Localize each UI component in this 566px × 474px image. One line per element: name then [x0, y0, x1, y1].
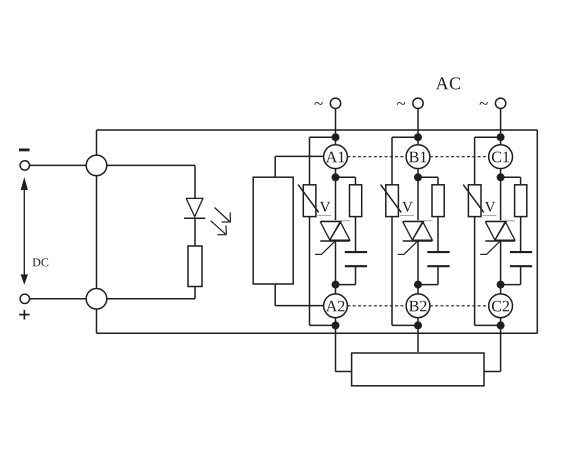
AC terminal circle (phase A) [330, 98, 340, 108]
resistor R (phase B) [432, 185, 444, 217]
LED D1 (input LED) [184, 198, 205, 218]
wire triac to A2 [335, 241, 337, 294]
wire phase C to bottom block [484, 371, 501, 373]
terminal A2 [324, 294, 348, 318]
wire block to A1 [275, 156, 323, 177]
dashed link A1-B1 [347, 156, 406, 158]
wire triac to B2 [417, 241, 419, 294]
junction dot (below A2) [332, 321, 340, 329]
terminal B2 [406, 294, 430, 318]
label V (phase C) [485, 202, 495, 212]
triac Q (phase C) [485, 221, 515, 241]
wire varistor branch bottom (phase A) [310, 217, 336, 326]
wire phase A to bottom block [336, 371, 352, 373]
DC input node circle (bottom-left) [86, 289, 107, 310]
capacitor C (phase B) [427, 252, 449, 266]
label DC [33, 258, 49, 266]
wire RC branch top (phase C) [501, 177, 521, 185]
dashed link B1-C1 [430, 156, 489, 158]
junction dot (below B1) [414, 173, 422, 181]
LED light emission arrows [211, 208, 231, 235]
dashed link A2-B2 [347, 305, 406, 307]
wire C2 down through box (phase C) [500, 318, 502, 372]
terminal C1 [489, 145, 513, 169]
DC input node circle (top-left) [86, 155, 107, 176]
wire varistor branch top (phase C) [475, 137, 501, 185]
wire capacitor to junction (phase B) [418, 266, 438, 284]
junction dot (below A1) [332, 173, 340, 181]
junction dot (below B2) [414, 321, 422, 329]
DC negative input terminal [20, 161, 29, 170]
junction dot (capacitor join, phase B) [414, 281, 422, 289]
wire negative terminal to node [30, 164, 87, 166]
wire RC branch top (phase A) [336, 177, 356, 185]
wire resistor to capacitor (phase B) [437, 217, 439, 252]
junction dot (below C1) [497, 173, 505, 181]
label V (phase B) [402, 202, 412, 212]
wire RC branch top (phase B) [418, 177, 438, 185]
wire varistor branch top (phase B) [392, 137, 418, 185]
resistor R1 (LED series resistor) [188, 246, 202, 287]
varistor RV (phase A) [298, 185, 331, 217]
triac gate lead (phase C) [480, 241, 500, 254]
wire A1 to triac (phase A) [335, 169, 337, 221]
dashed link B2-C2 [430, 305, 489, 307]
wire AC terminal down to C1 [500, 109, 502, 145]
junction dot (phase B top) [414, 133, 422, 141]
wire varistor branch bottom (phase C) [475, 217, 501, 326]
triac Q (phase B) [403, 221, 433, 241]
wire LED to resistor [194, 218, 196, 246]
wire varistor branch bottom (phase B) [392, 217, 418, 326]
wire triac to C2 [500, 241, 502, 294]
wire B1 to triac (phase B) [417, 169, 419, 221]
wire varistor branch top (phase A) [310, 137, 336, 185]
wire resistor to capacitor (phase C) [520, 217, 522, 252]
DC polarity double arrow [21, 179, 27, 284]
capacitor C (phase C) [510, 252, 532, 266]
terminal C2 [489, 294, 513, 318]
AC line tilde symbol (phase C) [480, 102, 488, 105]
terminal B1 [406, 145, 430, 169]
minus sign (DC negative) [19, 148, 30, 151]
wire block to A2 [275, 284, 323, 306]
label AC [436, 77, 460, 89]
junction dot (capacitor join, phase C) [497, 281, 505, 289]
plus sign (DC positive) [19, 310, 29, 320]
wire node to LED branch (top) [107, 165, 195, 198]
junction dot (phase C top) [497, 133, 505, 141]
triac Q (phase A) [320, 221, 350, 241]
trigger circuit block U1 [253, 177, 293, 284]
wire A2 down through box (phase A) [335, 318, 337, 372]
terminal A1 [324, 145, 348, 169]
triac gate lead (phase A) [315, 241, 335, 254]
AC terminal circle (phase C) [495, 98, 505, 108]
wire C1 to triac (phase C) [500, 169, 502, 221]
wire resistor to node (bottom return) [107, 287, 195, 299]
triac gate lead (phase B) [398, 241, 418, 254]
resistor R (phase C) [515, 185, 527, 217]
capacitor C (phase A) [345, 252, 367, 266]
wire resistor to capacitor (phase A) [355, 217, 357, 252]
label V (phase A) [320, 202, 330, 212]
outer module enclosure box [97, 130, 538, 333]
resistor R (phase A) [350, 185, 362, 217]
wire capacitor to junction (phase A) [336, 266, 356, 284]
AC line tilde symbol (phase A) [314, 102, 322, 105]
wire AC terminal down to B1 [417, 109, 419, 145]
junction dot (capacitor join, phase A) [332, 281, 340, 289]
wire B2 down through box (phase B) [417, 318, 419, 352]
junction dot (below C2) [497, 321, 505, 329]
wire positive terminal to node [30, 298, 87, 300]
varistor RV (phase C) [463, 185, 496, 217]
AC line tilde symbol (phase B) [397, 102, 405, 105]
AC terminal circle (phase B) [413, 98, 423, 108]
junction dot (phase A top) [332, 133, 340, 141]
varistor RV (phase B) [381, 185, 414, 217]
bottom control block U2 [352, 353, 484, 386]
DC positive input terminal [20, 294, 29, 303]
wire capacitor to junction (phase C) [501, 266, 521, 284]
wire AC terminal down to A1 [335, 109, 337, 145]
